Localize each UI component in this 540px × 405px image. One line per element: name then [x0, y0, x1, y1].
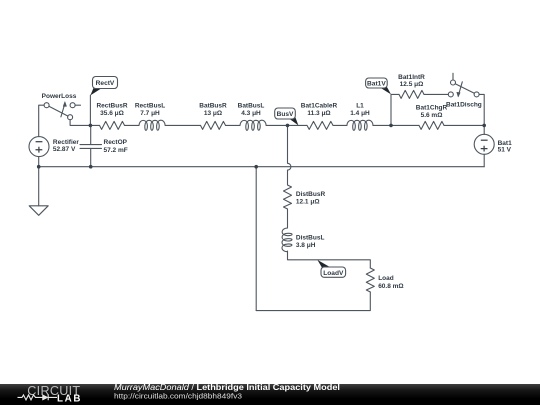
node battery top junction [482, 124, 486, 128]
wire capacitor top stem [90, 125, 92, 144]
svg-text:3.8 μH: 3.8 μH [296, 242, 316, 249]
logo squiggle [18, 395, 58, 401]
svg-text:DistBusL: DistBusL [296, 234, 325, 241]
svg-text:12.5 μΩ: 12.5 μΩ [400, 81, 424, 88]
wire rectifier top to switch [39, 105, 44, 136]
node rectifier ground junction [37, 165, 41, 169]
resistor DistBusR (vertical) [284, 185, 292, 209]
probe LoadV [317, 260, 329, 269]
svg-text:4.3 μH: 4.3 μH [241, 110, 261, 117]
footer bar [0, 382, 540, 405]
wire BatBusL through BusV node to Bat1CableR [266, 124, 307, 126]
wire L1 through node to Bat1ChgR [373, 124, 419, 126]
node capacitor bottom junction [89, 165, 93, 169]
ground [29, 206, 48, 216]
resistor BatBusR [201, 121, 226, 129]
node BusV junction [286, 124, 290, 128]
svg-text:CIRCUIT: CIRCUIT [27, 384, 80, 398]
svg-text:Load: Load [378, 275, 394, 282]
wire RectBusL to BatBusR [165, 124, 200, 126]
svg-text:RectBusR: RectBusR [96, 103, 127, 110]
wire Load bottom corner to left [256, 292, 370, 311]
wire Bat1IntR to switch [424, 93, 448, 95]
svg-text:35.6 μΩ: 35.6 μΩ [100, 110, 124, 117]
probe BusV [288, 116, 299, 126]
probe RectV [90, 87, 101, 96]
svg-text:DistBusR: DistBusR [296, 191, 326, 198]
svg-text:13 μΩ: 13 μΩ [204, 110, 222, 117]
svg-text:5.6 mΩ: 5.6 mΩ [421, 112, 443, 119]
wire BatBusR to BatBusL [226, 124, 241, 126]
inductor L1 [347, 120, 373, 130]
svg-text:L1: L1 [356, 103, 364, 110]
wire rectifier bottom to bus [38, 157, 40, 167]
svg-text:RectV: RectV [96, 80, 115, 87]
inductor DistBusL (vertical) [282, 228, 292, 252]
svg-text:http://circuitlab.com/chjd8bh8: http://circuitlab.com/chjd8bh849fv3 [114, 392, 242, 401]
node Bat1 branch junction [389, 124, 393, 128]
svg-text:Bat1CableR: Bat1CableR [301, 103, 338, 110]
wire battery bottom to bus [483, 154, 485, 166]
svg-text:11.3 μΩ: 11.3 μΩ [307, 110, 330, 117]
wire DistBusR to DistBusL [287, 209, 289, 228]
wire battery top stem [483, 125, 485, 134]
svg-text:BatBusR: BatBusR [199, 103, 227, 110]
resistor RectBusR [100, 121, 125, 129]
svg-text:60.8 mΩ: 60.8 mΩ [378, 283, 403, 290]
svg-text:52.87 V: 52.87 V [53, 146, 76, 153]
rectifier polarity symbols [36, 140, 488, 152]
svg-text:Bat1ChgR: Bat1ChgR [416, 105, 448, 112]
wire RectV stem [89, 95, 91, 125]
junction dots [37, 124, 486, 169]
wire load branch left vertical [255, 167, 257, 311]
svg-text:12.1 μΩ: 12.1 μΩ [296, 198, 320, 205]
resistor Bat1ChgR [419, 121, 444, 129]
wire DistBusL to corner and right to Load top [288, 251, 371, 268]
resistor Load (vertical) [366, 268, 374, 292]
wire bus to ground [38, 167, 40, 206]
inductor RectBusL [139, 120, 165, 130]
wire RectBusR to RectBusL [125, 124, 140, 126]
svg-text:RectOP: RectOP [104, 139, 128, 146]
rectifier source circle [29, 137, 49, 157]
capacitor RectOP plates [80, 145, 102, 149]
resistor Bat1IntR [399, 90, 424, 98]
svg-text:Bat1V: Bat1V [367, 81, 386, 88]
svg-text:LoadV: LoadV [323, 270, 344, 277]
voltage probe flags [90, 77, 391, 278]
svg-text:51 V: 51 V [498, 146, 512, 153]
wire switch right to battery junction [479, 94, 484, 125]
wire Bat1ChgR to battery top junction [444, 124, 484, 126]
svg-text:BatBusL: BatBusL [238, 103, 265, 110]
wire branch up at node to Bat1IntR [391, 94, 399, 125]
svg-text:BusV: BusV [277, 111, 294, 118]
wire capacitor bottom stem [90, 148, 92, 166]
probe Bat1V [379, 85, 391, 94]
svg-text:7.7 μH: 7.7 μH [140, 110, 160, 117]
wire BusV node down with hop over bottom bus [288, 125, 291, 185]
svg-text:RectBusL: RectBusL [135, 103, 165, 110]
inductor BatBusL [240, 120, 266, 130]
switch PowerLoss [44, 102, 80, 120]
wire Bat1CableR to L1 [333, 124, 347, 126]
wire bottom bus [39, 166, 485, 168]
svg-text:Bat1IntR: Bat1IntR [398, 74, 425, 81]
svg-text:1.4 μH: 1.4 μH [350, 110, 370, 117]
node load branch junction [254, 165, 258, 169]
battery Bat1 circle [474, 134, 494, 154]
resistor Bat1CableR [307, 121, 333, 129]
svg-text:PowerLoss: PowerLoss [42, 93, 77, 100]
wire switch lower throw down and right to RectV junction [70, 120, 99, 126]
svg-text:57.2 mF: 57.2 mF [104, 147, 128, 154]
node RectV junction [89, 124, 93, 128]
svg-text:LAB: LAB [57, 394, 81, 405]
svg-text:Bat1Dischg: Bat1Dischg [446, 102, 482, 109]
switch Bat1Dischg [448, 73, 479, 97]
